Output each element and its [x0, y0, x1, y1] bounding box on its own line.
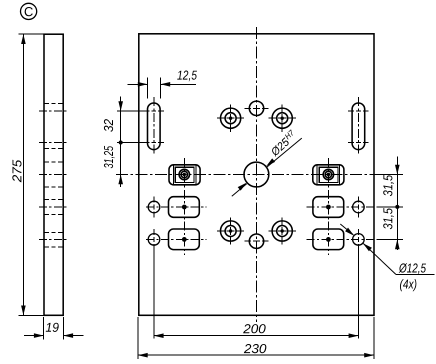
hole Ø12.5 left row C [148, 201, 160, 213]
Ø25 H7 leader [232, 138, 302, 196]
side view centerlines (dash-dot) [39, 111, 69, 239]
dimension 230 [138, 317, 374, 359]
row C centerline left [146, 206, 207, 208]
counterbore hole bottom-left [217, 217, 244, 244]
slot right crosshair ticks [348, 111, 368, 143]
hole Ø12.5 right row D [353, 234, 365, 246]
left clamp column centerline [183, 158, 185, 255]
right column centerline [357, 97, 359, 155]
leader Ø12,5 (4x) [340, 224, 434, 275]
dimension 32 / 31,25 (left) [117, 97, 145, 188]
row D centerline left [146, 238, 207, 240]
dimension 19 [24, 317, 84, 340]
hole Ø12.5 right row C [353, 201, 365, 213]
side view hidden lines (dashed) [45, 103, 63, 246]
slot right (obround) [352, 103, 365, 150]
small hole bottom center [249, 234, 263, 248]
t-slot pad left row D [169, 229, 200, 250]
view label C circled [21, 3, 37, 19]
t-slot pad right row C [313, 197, 344, 218]
horizontal centerline of plate [116, 174, 403, 176]
side view outline [44, 34, 63, 315]
counterbore hole top-right [269, 105, 296, 132]
dimension 275 [18, 34, 44, 315]
row D centerline right [307, 238, 404, 240]
small hole top center [249, 101, 263, 115]
dimension 12,5 (slot width) [128, 78, 197, 99]
t-slot pad right row D [313, 229, 344, 250]
center bore Ø25 H7 [244, 162, 269, 187]
main plate outline [139, 34, 374, 316]
vertical centerline of plate [255, 27, 257, 322]
right clamp column centerline [327, 158, 329, 255]
t-slot pad left row C [169, 197, 200, 218]
clamp feature right (row B) [313, 165, 344, 185]
dimension 200 [154, 335, 359, 337]
dimension 31,5 / 31,5 (right) [377, 157, 403, 251]
slot left crosshair ticks [144, 111, 164, 143]
left column centerline [153, 97, 155, 155]
counterbore hole bottom-right [269, 217, 296, 244]
clamp feature left (row B) [169, 165, 200, 185]
slot left (obround) [148, 103, 161, 150]
row C centerline right [307, 206, 404, 208]
counterbore hole top-left [217, 105, 244, 132]
hole Ø12.5 left row D [148, 234, 160, 246]
